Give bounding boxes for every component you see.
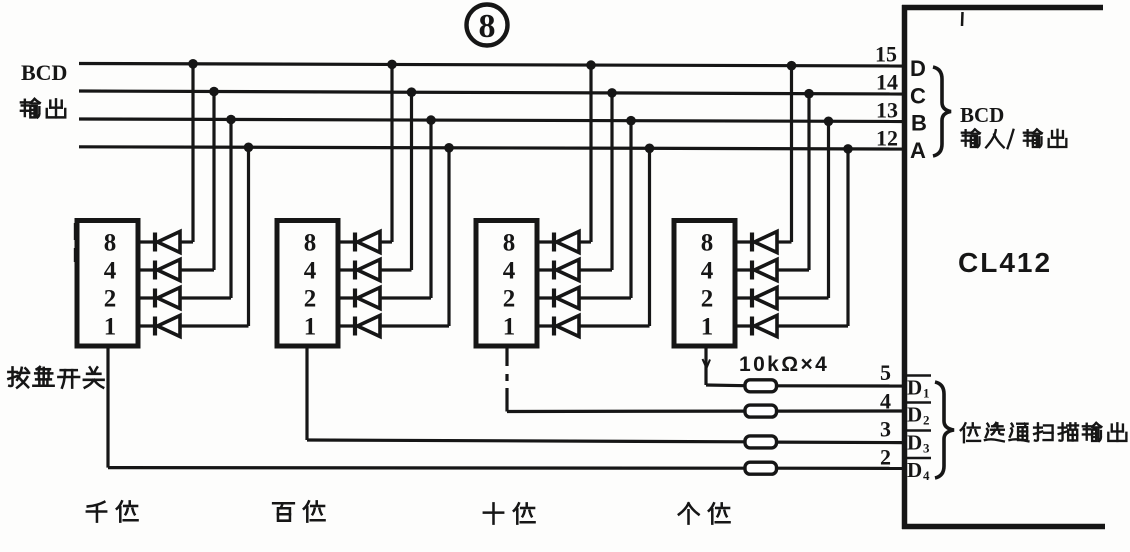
wire switch S4 个位 row 8 to diode D13 (735, 240, 752, 243)
wire scan line pin 3 right part (777, 441, 904, 445)
wire diode D7 to riser (380, 296, 431, 299)
diode D5 (355, 232, 380, 253)
junction dot on B bus (pin13) (426, 115, 436, 125)
resistor R3 10k (745, 436, 777, 448)
wire diode D8 to riser (380, 324, 449, 327)
thumbwheel switch S3 十位 box (476, 221, 537, 347)
label 千位 (thousands) (87, 501, 138, 521)
wire switch S3 十位 row 4 to diode D10 (537, 268, 554, 271)
wire riser to B bus (pin13) (229, 120, 232, 299)
svg-text:1: 1 (503, 314, 516, 341)
wire riser to C bus (pin14) (410, 92, 413, 270)
wire switch S3 十位 row 1 to diode D12 (537, 324, 554, 327)
wire scan line pin 4 left part (507, 410, 745, 414)
label 拨盘开关 (thumbwheel switch) (8, 367, 103, 388)
junction dot on C bus (pin14) (209, 87, 219, 97)
svg-text:10kΩ×4: 10kΩ×4 (739, 353, 829, 376)
label 输出 (BCD output) (21, 99, 65, 117)
wire switch S4 个位 row 4 to diode D14 (735, 268, 752, 271)
wire riser to A bus (pin12) (846, 149, 849, 326)
wire riser to C bus (pin14) (807, 94, 810, 270)
wire riser to A bus (pin12) (648, 148, 651, 326)
wire diode D14 to riser (777, 268, 809, 271)
thumbwheel switch S2 百位 box (277, 221, 338, 347)
junction dot on C bus (pin14) (407, 87, 417, 97)
wire riser to C bus (pin14) (610, 93, 613, 270)
diode D3 (155, 288, 180, 309)
wire riser to C bus (pin14) (212, 92, 215, 271)
label 百位 (hundreds) (273, 501, 324, 521)
wire switch S2 百位 row 4 to diode D6 (338, 268, 355, 271)
wire diode D12 to riser (579, 324, 650, 327)
IC U1 CL412 left edge (902, 5, 908, 529)
svg-text:2: 2 (923, 413, 930, 428)
svg-text:D: D (907, 458, 922, 482)
diode D4 (155, 316, 180, 337)
svg-text:5: 5 (880, 360, 891, 385)
wire scan line pin 2 right part (777, 467, 904, 470)
wire switch S2 百位 common drop (305, 346, 308, 440)
wire diode D9 to riser (579, 240, 591, 243)
svg-text:4: 4 (923, 468, 930, 483)
wire D bus (pin15) (79, 64, 903, 67)
wire riser to D bus (pin15) (790, 66, 793, 242)
wire diode D10 to riser (579, 268, 612, 271)
svg-text:2: 2 (304, 286, 317, 313)
port label D1 bar (906, 376, 931, 401)
junction dot on C bus (pin14) (607, 88, 617, 98)
junction dot on A bus (pin12) (244, 143, 254, 153)
svg-text:8: 8 (104, 230, 117, 257)
wire riser to B bus (pin13) (429, 120, 432, 298)
resistor R4 10k (745, 462, 777, 474)
wire switch S3 十位 row 2 to diode D11 (537, 296, 554, 299)
diode D12 (554, 316, 579, 337)
svg-text:D: D (907, 431, 922, 455)
svg-text:2: 2 (104, 286, 117, 313)
thumbwheel switch S1 千位 box (77, 221, 138, 347)
wire diode D15 to riser (777, 296, 829, 299)
junction dot on B bus (pin13) (626, 116, 636, 126)
diode D1 (155, 232, 180, 253)
wire switch S4 个位 row 2 to diode D15 (735, 296, 752, 299)
diode D6 (355, 260, 380, 281)
wire switch S1 千位 common drop (106, 346, 109, 468)
wire riser to D bus (pin15) (589, 65, 592, 242)
wire switch S1 千位 row 1 to diode D4 (138, 324, 155, 327)
diode D10 (554, 260, 579, 281)
diode D14 (752, 260, 777, 281)
junction dot on D bus (pin15) (586, 60, 596, 70)
diode D2 (155, 260, 180, 281)
wire diode D3 to riser (180, 296, 231, 299)
label 位选通扫描输出 (digit strobe scan outputs) (961, 423, 1127, 442)
svg-text:4: 4 (701, 258, 714, 285)
wire diode D11 to riser (579, 296, 631, 299)
diode D15 (752, 288, 777, 309)
svg-text:1: 1 (104, 314, 117, 341)
svg-text:1: 1 (304, 314, 317, 341)
junction dot on A bus (pin12) (444, 143, 454, 153)
svg-text:8: 8 (701, 230, 714, 257)
junction dot on B bus (pin13) (226, 115, 236, 125)
label 十位 (tens) (484, 503, 535, 523)
wire B bus (pin13) (79, 119, 903, 122)
svg-text:B: B (911, 111, 927, 136)
thumbwheel switch S4 个位 box (674, 221, 735, 347)
IC U1 CL412 top edge (902, 5, 1103, 11)
svg-text:8: 8 (479, 8, 496, 45)
wire scan line pin 4 right part (777, 409, 904, 412)
wire diode D1 to riser (180, 240, 193, 243)
label 输入/输出 (BCD in/out) (962, 129, 1066, 148)
svg-text:D: D (910, 56, 926, 81)
junction dot on A bus (pin12) (645, 144, 655, 154)
svg-text:2: 2 (701, 286, 714, 313)
resistor R1 10k (745, 380, 777, 392)
wire scan line pin 2 left part (108, 466, 745, 470)
wire scan line pin 3 left part (307, 440, 745, 442)
svg-text:4: 4 (104, 258, 117, 285)
svg-text:4: 4 (503, 258, 516, 285)
junction dot on A bus (pin12) (843, 144, 853, 154)
svg-text:2: 2 (880, 445, 891, 470)
svg-text:8: 8 (503, 230, 516, 257)
wire riser to B bus (pin13) (827, 121, 830, 298)
wire scan line pin 5 left part (706, 383, 745, 387)
wire switch S2 百位 row 1 to diode D8 (338, 324, 355, 327)
resistor R2 10k (745, 405, 777, 417)
svg-text:3: 3 (880, 417, 891, 442)
diode D7 (355, 288, 380, 309)
wire diode D5 to riser (380, 240, 392, 243)
wire A bus (pin12) (79, 147, 903, 149)
svg-text:12: 12 (876, 126, 898, 151)
svg-text:1: 1 (923, 386, 930, 401)
junction dot on B bus (pin13) (824, 117, 834, 127)
port label D4 bar (906, 458, 931, 483)
wire switch S4 个位 common drop (704, 346, 707, 385)
svg-text:BCD: BCD (960, 103, 1004, 127)
wire C bus (pin14) (79, 91, 903, 94)
wire riser to A bus (pin12) (447, 148, 450, 326)
scan artifact tick (961, 12, 964, 26)
scan artifact marks left of S1 (74, 223, 76, 262)
wire switch S1 千位 row 4 to diode D2 (138, 268, 155, 271)
svg-text:CL412: CL412 (958, 247, 1052, 278)
junction dot on D bus (pin15) (188, 59, 198, 69)
wire diode D16 to riser (777, 324, 848, 327)
svg-text:8: 8 (304, 230, 317, 257)
wire switch S3 十位 common drop (dash-dot) (505, 346, 508, 412)
scan artifact on S4 drop wire (703, 359, 711, 368)
wire switch S2 百位 row 8 to diode D5 (338, 240, 355, 243)
diode D8 (355, 316, 380, 337)
wire scan line pin 5 right part (777, 384, 904, 387)
junction dot on D bus (pin15) (787, 61, 797, 71)
brace BCD in/out (933, 67, 951, 156)
figure number circled 8 (467, 5, 508, 46)
wire switch S2 百位 row 2 to diode D7 (338, 296, 355, 299)
port label D3 bar (906, 431, 931, 456)
svg-text:4: 4 (304, 258, 317, 285)
wire riser to D bus (pin15) (191, 64, 194, 242)
label 个位 (ones) (679, 503, 730, 523)
diode D13 (752, 232, 777, 253)
wire diode D2 to riser (180, 268, 214, 271)
wire diode D4 to riser (180, 324, 249, 327)
wire switch S3 十位 row 8 to diode D9 (537, 240, 554, 243)
svg-text:2: 2 (503, 286, 516, 313)
svg-text:13: 13 (876, 98, 898, 123)
wire switch S1 千位 row 2 to diode D3 (138, 296, 155, 299)
wire diode D13 to riser (777, 240, 792, 243)
diode D16 (752, 316, 777, 337)
svg-text:15: 15 (875, 42, 897, 67)
wire switch S4 个位 row 1 to diode D16 (735, 324, 752, 327)
junction dot on C bus (pin14) (804, 89, 814, 99)
wire riser to B bus (pin13) (629, 121, 632, 298)
diode D9 (554, 232, 579, 253)
wire switch S1 千位 row 8 to diode D1 (138, 240, 155, 243)
svg-text:D: D (907, 403, 922, 427)
svg-text:C: C (910, 84, 926, 109)
IC U1 CL412 bottom edge (902, 524, 1105, 530)
svg-text:3: 3 (923, 441, 930, 456)
wire riser to A bus (pin12) (247, 147, 250, 326)
brace scan outputs (935, 382, 954, 478)
svg-text:4: 4 (880, 389, 891, 414)
svg-text:D: D (907, 376, 922, 400)
junction dot on D bus (pin15) (387, 60, 397, 70)
svg-text:BCD: BCD (21, 60, 67, 85)
port label D2 bar (906, 403, 931, 428)
svg-text:14: 14 (876, 70, 898, 95)
svg-text:A: A (910, 138, 926, 163)
diode D11 (554, 288, 579, 309)
wire riser to D bus (pin15) (390, 64, 393, 242)
svg-text:1: 1 (701, 314, 714, 341)
wire diode D6 to riser (380, 268, 412, 271)
